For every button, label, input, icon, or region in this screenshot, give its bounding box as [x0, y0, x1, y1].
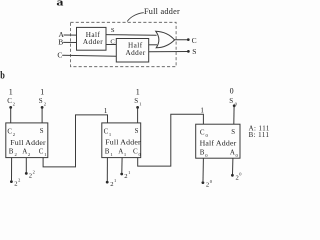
- svg-text:C: C: [57, 51, 62, 60]
- terminal dot A2: [25, 172, 28, 175]
- junction dot carry output: [187, 38, 190, 41]
- svg-text:2: 2: [206, 182, 209, 187]
- wire carry C0 from HA3 to FA2: [138, 114, 204, 166]
- svg-text:S: S: [111, 27, 115, 34]
- svg-text:1: 1: [128, 170, 130, 175]
- svg-text:2: 2: [124, 173, 127, 180]
- half adder U1: [77, 27, 107, 50]
- wire S0 out: [233, 106, 235, 124]
- svg-text:1: 1: [40, 88, 44, 97]
- svg-text:2: 2: [236, 174, 239, 181]
- svg-text:C: C: [39, 148, 44, 156]
- junction dot S1: [136, 106, 139, 109]
- svg-text:S: S: [192, 47, 196, 56]
- svg-text:S: S: [39, 97, 43, 105]
- svg-text:S: S: [135, 128, 139, 135]
- wire sum output: [149, 51, 188, 53]
- svg-text:S: S: [231, 129, 235, 136]
- terminal dot B1: [106, 181, 109, 184]
- svg-text:S: S: [40, 128, 44, 135]
- svg-text:S: S: [134, 97, 138, 105]
- wire B: [63, 41, 76, 43]
- or-gate U3: [156, 31, 175, 48]
- callout curve: [127, 13, 144, 22]
- svg-text:1: 1: [104, 107, 108, 115]
- svg-text:2: 2: [33, 170, 35, 175]
- svg-text:B: B: [58, 38, 63, 47]
- svg-text:C: C: [7, 97, 12, 105]
- full adder FA1 (2^2 stage): [6, 123, 48, 158]
- svg-text:A: A: [230, 149, 235, 157]
- svg-text:C: C: [192, 36, 197, 45]
- svg-text:1: 1: [9, 88, 13, 97]
- terminal dot A0: [231, 174, 234, 177]
- wire carry C1 from FA2 to FA1: [43, 115, 107, 167]
- svg-text:a: a: [56, 0, 64, 9]
- svg-text:C: C: [200, 129, 205, 137]
- svg-text:A: A: [118, 148, 123, 156]
- svg-text:Full Adder: Full Adder: [105, 137, 141, 146]
- svg-text:b: b: [0, 70, 5, 81]
- svg-text:0: 0: [230, 87, 234, 96]
- svg-text:Half Adder: Half Adder: [200, 139, 237, 148]
- terminal dot B2: [10, 180, 13, 183]
- svg-text:Adder: Adder: [125, 49, 145, 57]
- svg-text:2: 2: [110, 181, 113, 187]
- half adder U2: [116, 39, 148, 63]
- full adder FA2 (2^1 stage): [102, 123, 142, 158]
- wire input A0: [232, 158, 234, 174]
- terminal dot A1: [120, 173, 123, 176]
- wire input B0: [202, 158, 204, 181]
- svg-text:2: 2: [18, 178, 20, 183]
- svg-text:C: C: [7, 127, 12, 135]
- wire carry output: [174, 39, 187, 41]
- svg-text:2: 2: [29, 172, 32, 179]
- junction dot C2: [9, 106, 12, 109]
- svg-text:Adder: Adder: [83, 38, 103, 46]
- svg-text:B: B: [9, 148, 14, 156]
- svg-text:1: 1: [114, 178, 116, 183]
- svg-text:B: B: [200, 149, 205, 157]
- wire S2 out: [41, 107, 43, 123]
- wire C carry-in: [62, 54, 116, 57]
- svg-text:C: C: [104, 127, 109, 135]
- wire input B2: [11, 158, 13, 181]
- svg-text:Full Adder: Full Adder: [10, 138, 46, 147]
- wire U2 carry out to OR gate: [149, 44, 157, 46]
- full adder dashed enclosure: [71, 22, 177, 66]
- svg-text:Full adder: Full adder: [144, 7, 180, 16]
- junction dot S2: [41, 106, 44, 109]
- wire C2 out: [10, 107, 12, 123]
- svg-text:A: A: [22, 148, 27, 156]
- svg-text:B: B: [105, 148, 110, 156]
- wire S1 out: [137, 107, 139, 123]
- svg-text:2: 2: [14, 180, 17, 187]
- terminal dot B0: [202, 181, 205, 184]
- svg-text:C: C: [133, 148, 138, 156]
- svg-text:B: 111: B: 111: [249, 132, 269, 139]
- half adder HA3 (2^0 stage): [196, 124, 240, 158]
- wire U1 C to U2: [106, 44, 116, 46]
- junction dot S0: [233, 104, 236, 107]
- wire input B1: [106, 158, 108, 181]
- wire U1 S to OR gate: [106, 34, 157, 37]
- svg-text:1: 1: [136, 88, 140, 97]
- wire A: [64, 34, 77, 36]
- svg-text:1: 1: [200, 106, 204, 114]
- junction dot sum output: [187, 50, 190, 53]
- wire input A2: [25, 158, 27, 173]
- svg-text:S: S: [229, 97, 233, 105]
- wire input A1: [121, 158, 123, 173]
